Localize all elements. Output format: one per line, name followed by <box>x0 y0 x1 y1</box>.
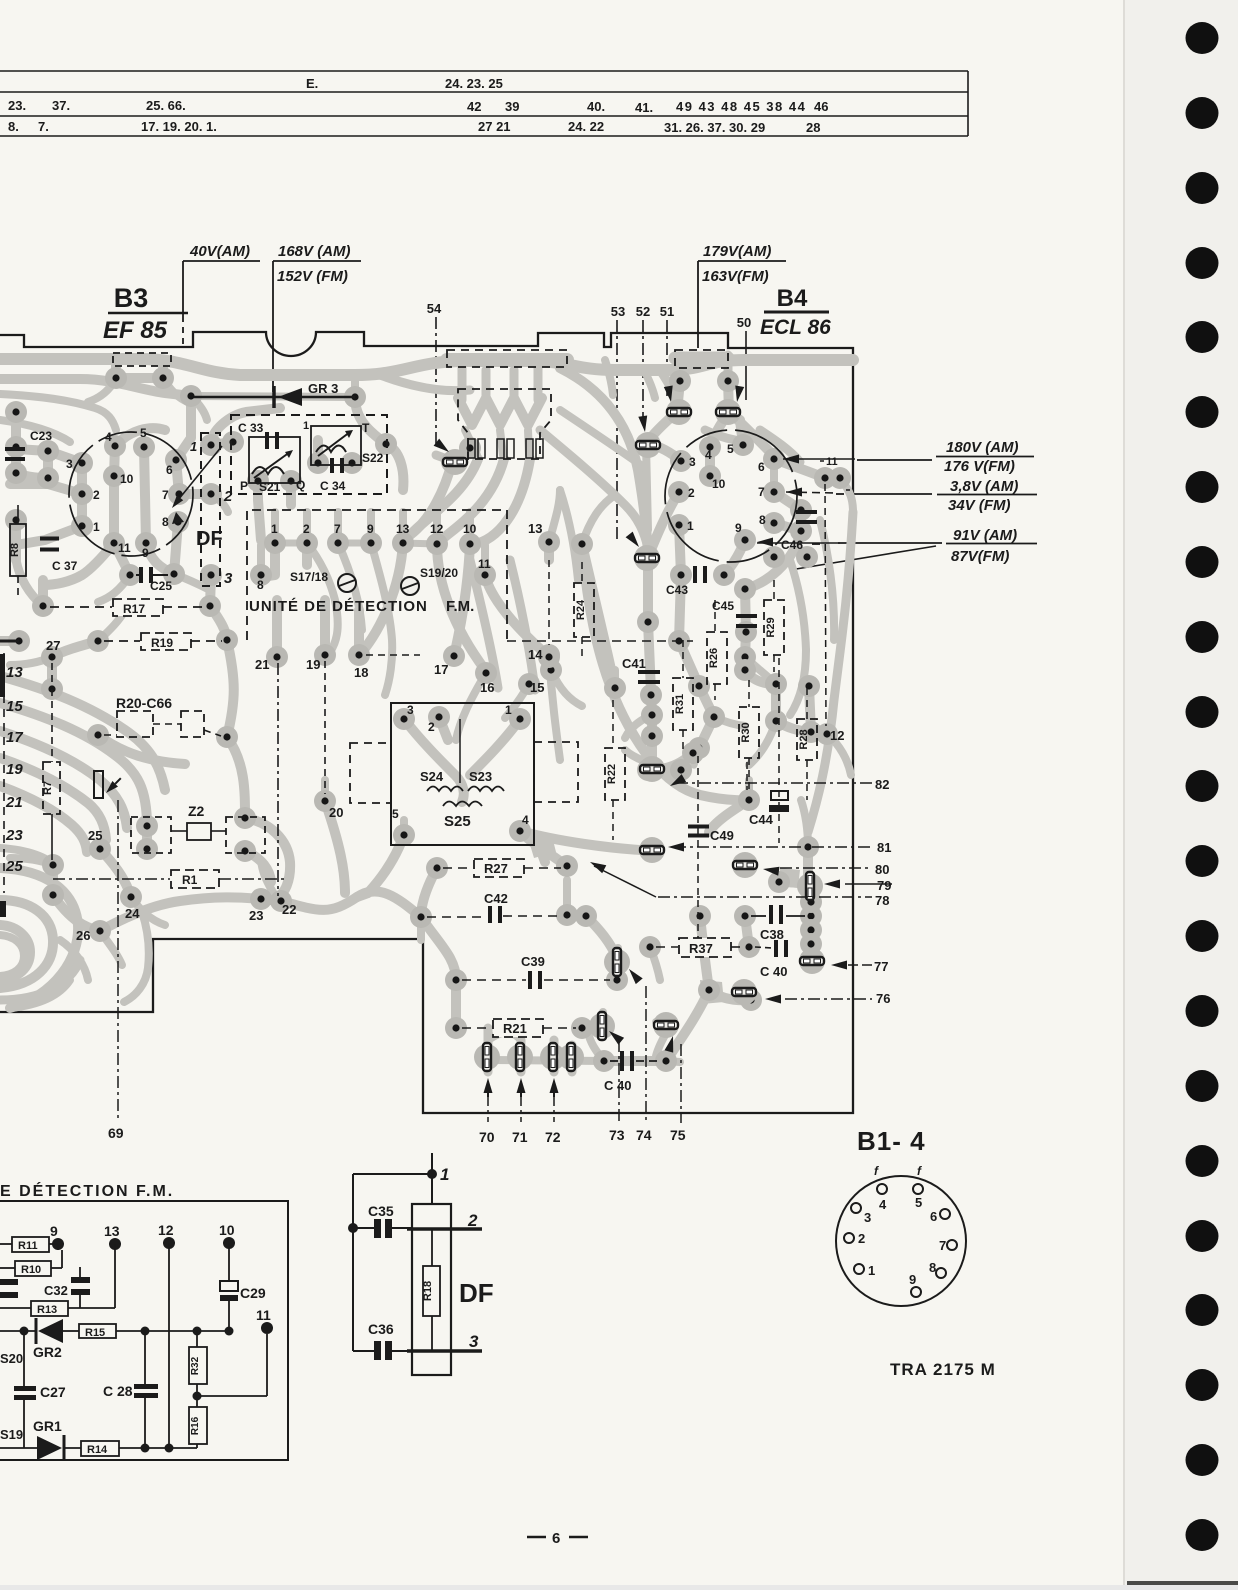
pad <box>393 708 415 730</box>
pad <box>200 564 222 586</box>
callout 51 <box>666 320 668 396</box>
wire <box>456 673 486 740</box>
pad <box>655 1050 677 1072</box>
capacitor C33 <box>265 432 279 449</box>
svg-text:71: 71 <box>512 1129 528 1145</box>
wire <box>0 359 853 375</box>
diode GR2 <box>0 1318 63 1344</box>
callout 13-14 <box>548 560 550 645</box>
pad <box>734 905 756 927</box>
resistor R1 <box>53 878 170 880</box>
svg-text:13: 13 <box>6 664 23 681</box>
svg-text:20: 20 <box>329 805 343 820</box>
svg-text:C41: C41 <box>622 656 646 671</box>
svg-text:C27: C27 <box>40 1384 66 1400</box>
coil S24 <box>427 787 463 792</box>
pad <box>816 723 838 745</box>
wire <box>368 835 404 893</box>
svg-text:53: 53 <box>611 304 625 319</box>
diode GR3 <box>194 396 355 399</box>
svg-text:R27: R27 <box>484 861 508 876</box>
wire <box>77 494 87 526</box>
svg-text:17: 17 <box>434 662 448 677</box>
wire <box>0 848 53 865</box>
terminal 10 <box>223 1237 235 1249</box>
pad <box>538 644 560 666</box>
wire <box>779 878 785 882</box>
wire <box>10 858 53 865</box>
svg-text:6: 6 <box>166 463 173 477</box>
wire 12 <box>168 1243 170 1448</box>
copper blob <box>700 980 724 1004</box>
svg-text:11: 11 <box>478 557 491 571</box>
svg-text:7: 7 <box>162 488 169 502</box>
wire <box>174 522 178 574</box>
strap 76 <box>731 979 757 1005</box>
wire <box>560 368 648 556</box>
wire <box>16 526 82 545</box>
strap 75 <box>653 1012 679 1038</box>
svg-text:2: 2 <box>467 1211 478 1230</box>
pad <box>199 595 221 617</box>
pad <box>180 385 202 407</box>
svg-text:11: 11 <box>826 456 838 468</box>
pad <box>800 919 822 941</box>
wire <box>114 543 130 575</box>
pad <box>234 840 256 862</box>
pad <box>688 675 710 697</box>
wire <box>724 540 745 575</box>
svg-text:C38: C38 <box>760 927 784 942</box>
wire <box>705 430 735 440</box>
wire <box>38 585 48 606</box>
svg-text:R14: R14 <box>87 1444 108 1456</box>
pad <box>280 470 302 492</box>
wire <box>693 748 699 753</box>
wire <box>77 463 87 494</box>
pad <box>718 401 740 423</box>
svg-text:23: 23 <box>5 827 23 844</box>
svg-text:EF 85: EF 85 <box>103 317 168 344</box>
diode GR1 <box>0 1435 64 1461</box>
svg-text:3,8V (AM): 3,8V (AM) <box>950 478 1018 495</box>
svg-text:19: 19 <box>6 761 23 778</box>
pad <box>765 710 787 732</box>
svg-text:13: 13 <box>528 521 542 536</box>
pad <box>798 675 820 697</box>
tube socket B3 <box>69 432 193 556</box>
pad <box>426 533 448 555</box>
pad <box>428 706 450 728</box>
pad <box>763 448 785 470</box>
wire <box>281 891 421 917</box>
pad <box>327 532 349 554</box>
copper blob <box>528 836 556 858</box>
svg-text:25: 25 <box>5 858 23 875</box>
svg-text:180V (AM): 180V (AM) <box>946 439 1019 456</box>
callout 69 <box>117 800 119 1121</box>
wire <box>451 980 461 1028</box>
wire <box>549 657 560 760</box>
B1-4 pin 7 <box>947 1240 957 1250</box>
B1-4 pin 1 <box>854 1264 864 1274</box>
svg-text:77: 77 <box>874 959 888 974</box>
wire <box>582 1027 598 1028</box>
svg-text:5: 5 <box>915 1195 922 1210</box>
arrow 81 <box>668 843 684 852</box>
capacitor C66 box <box>181 711 204 737</box>
wire <box>520 831 640 850</box>
svg-text:10: 10 <box>712 477 726 491</box>
wire <box>648 622 652 736</box>
wire <box>144 447 146 543</box>
svg-text:34V (FM): 34V (FM) <box>948 497 1011 514</box>
svg-text:8.: 8. <box>8 119 19 134</box>
svg-text:ECL 86: ECL 86 <box>760 316 831 339</box>
pad <box>314 790 336 812</box>
svg-text:15: 15 <box>530 680 544 695</box>
svg-text:S21: S21 <box>259 480 281 494</box>
wire <box>648 492 679 557</box>
svg-text:15: 15 <box>6 698 23 715</box>
svg-text:39: 39 <box>505 99 519 114</box>
pad <box>740 989 762 1011</box>
pad <box>163 563 185 585</box>
strap 74 <box>604 948 630 976</box>
svg-text:75: 75 <box>670 1127 686 1143</box>
wire <box>179 489 211 499</box>
pad <box>639 936 661 958</box>
resistor R14 <box>81 1441 119 1456</box>
terminal 13 <box>109 1238 121 1250</box>
wire stub <box>0 640 19 643</box>
resistor R10 <box>15 1261 51 1276</box>
wire <box>500 430 503 455</box>
wire <box>47 657 57 689</box>
wire <box>351 377 359 397</box>
B1-4 pin 4 <box>877 1184 887 1194</box>
pad <box>637 759 659 781</box>
svg-text:R18: R18 <box>422 1281 434 1301</box>
svg-text:14: 14 <box>528 647 543 662</box>
arrow <box>172 495 183 508</box>
svg-text:DF: DF <box>459 1278 494 1308</box>
wire <box>227 640 234 737</box>
pad <box>606 969 628 991</box>
pad <box>768 871 790 893</box>
wire <box>577 544 587 562</box>
capacitor C31 <box>0 1279 18 1298</box>
pad <box>270 890 292 912</box>
wire <box>677 381 680 412</box>
pad <box>167 511 189 533</box>
wire <box>436 455 455 462</box>
svg-text:C43: C43 <box>666 583 688 597</box>
wire <box>776 684 811 732</box>
wire <box>447 353 567 367</box>
pad <box>296 532 318 554</box>
wire <box>0 394 116 430</box>
resistor R37 <box>656 946 678 948</box>
resistor R19 <box>104 640 140 642</box>
wire <box>796 510 806 531</box>
terminal 9 <box>52 1238 64 1250</box>
svg-text:176 V(FM): 176 V(FM) <box>944 458 1015 475</box>
svg-text:3: 3 <box>469 1332 479 1351</box>
wire <box>482 370 491 400</box>
svg-text:S25: S25 <box>444 813 471 830</box>
svg-text:87V(FM): 87V(FM) <box>951 548 1009 565</box>
svg-text:T: T <box>362 421 370 435</box>
wire <box>124 912 149 1002</box>
capacitor C35 <box>374 1219 392 1238</box>
wire <box>560 410 645 468</box>
wire <box>510 370 519 400</box>
pad <box>314 644 336 666</box>
wire <box>0 676 165 790</box>
B1-4 pin 8 <box>936 1268 946 1278</box>
svg-text:R15: R15 <box>85 1327 105 1339</box>
pad <box>250 564 272 586</box>
pad <box>5 509 27 531</box>
resistor R17 <box>50 606 112 608</box>
arrow R7 <box>106 778 121 793</box>
svg-text:R24: R24 <box>575 599 587 620</box>
svg-text:74: 74 <box>636 1127 652 1143</box>
svg-text:S17/18: S17/18 <box>290 570 328 584</box>
wire <box>98 575 130 602</box>
pad <box>136 838 158 860</box>
wire <box>321 780 329 801</box>
strap 54 <box>442 449 468 475</box>
wire <box>746 531 801 589</box>
svg-text:R19: R19 <box>151 636 173 650</box>
arrow 71 <box>517 1078 526 1097</box>
pad <box>375 433 397 455</box>
svg-text:11: 11 <box>256 1307 271 1323</box>
Z2 pad box L <box>131 817 171 853</box>
capacitor C23 <box>5 447 25 461</box>
svg-text:26: 26 <box>76 928 90 943</box>
wire <box>679 641 699 686</box>
pad <box>763 546 785 568</box>
arrow pin7 <box>786 488 802 497</box>
svg-text:51: 51 <box>660 304 674 319</box>
svg-text:R10: R10 <box>21 1264 41 1276</box>
wire <box>625 750 656 766</box>
svg-text:50: 50 <box>737 315 751 330</box>
svg-text:8: 8 <box>257 578 264 592</box>
svg-text:R21: R21 <box>503 1021 527 1036</box>
wire <box>563 880 571 915</box>
strap 72a <box>540 1043 566 1071</box>
svg-text:DF: DF <box>196 528 223 550</box>
svg-text:80: 80 <box>875 862 889 877</box>
wire <box>646 445 648 530</box>
svg-text:3: 3 <box>407 703 414 717</box>
svg-text:4: 4 <box>705 448 712 462</box>
wire <box>745 589 746 657</box>
wire <box>0 935 24 976</box>
capacitor C40 <box>620 1051 634 1071</box>
wire <box>452 448 470 462</box>
wire <box>142 826 152 849</box>
svg-text:10: 10 <box>120 472 134 486</box>
wire <box>357 893 368 897</box>
svg-text:C35: C35 <box>368 1203 394 1219</box>
strap 77 <box>799 948 825 974</box>
svg-text:R26: R26 <box>708 648 720 668</box>
wire <box>43 451 53 478</box>
pad <box>344 386 366 408</box>
pad <box>732 434 754 456</box>
trimmer S21 symbol <box>252 450 293 478</box>
pad <box>266 646 288 668</box>
wire <box>258 481 261 540</box>
wire <box>0 925 30 980</box>
wire <box>656 1030 668 1056</box>
arrow pin6 <box>783 455 799 464</box>
svg-text:24: 24 <box>125 906 140 921</box>
svg-text:R29: R29 <box>765 617 777 637</box>
pad <box>410 906 432 928</box>
svg-text:40.: 40. <box>587 99 605 114</box>
svg-text:168V (AM): 168V (AM) <box>278 243 351 260</box>
pad <box>360 532 382 554</box>
svg-text:25. 66.: 25. 66. <box>146 98 186 113</box>
measure line 179V <box>697 261 699 348</box>
terminal 11 <box>261 1322 273 1334</box>
wire <box>10 657 52 665</box>
wire <box>191 396 207 420</box>
pad <box>698 979 720 1001</box>
wire <box>0 731 127 828</box>
left edge callout nodes <box>3 653 5 893</box>
wire <box>0 868 78 1008</box>
wire <box>88 378 116 402</box>
svg-text:R20-C66: R20-C66 <box>116 695 172 711</box>
wire <box>10 484 82 494</box>
pad <box>738 789 760 811</box>
pad <box>699 465 721 487</box>
wire <box>302 543 312 565</box>
measure line 40V <box>182 261 184 322</box>
wire <box>100 931 122 965</box>
wire <box>176 460 179 494</box>
wire <box>354 610 364 655</box>
pad <box>682 742 704 764</box>
wire <box>540 430 648 548</box>
wire <box>0 420 70 442</box>
svg-text:2: 2 <box>303 522 310 536</box>
pad <box>200 434 222 456</box>
pad <box>42 884 64 906</box>
svg-text:23: 23 <box>249 908 263 923</box>
wire <box>709 990 751 1000</box>
pad <box>474 564 496 586</box>
wire <box>582 1024 600 1032</box>
wire <box>666 1061 680 1062</box>
svg-text:Q: Q <box>296 478 305 492</box>
wire <box>540 848 545 862</box>
wire <box>43 543 114 585</box>
pad <box>459 437 481 459</box>
pin slot <box>478 439 485 458</box>
callout 50 <box>745 331 747 400</box>
resistor R8 <box>10 524 26 576</box>
svg-text:18: 18 <box>354 665 368 680</box>
pad <box>538 646 560 668</box>
wire <box>16 560 43 606</box>
pin slot <box>507 439 514 458</box>
pad <box>135 532 157 554</box>
callout line 3.8V <box>846 493 932 495</box>
pad <box>670 564 692 586</box>
pad <box>593 1050 615 1072</box>
svg-text:C 33: C 33 <box>238 421 264 435</box>
svg-text:1: 1 <box>271 522 278 536</box>
capacitor C44 <box>769 791 789 812</box>
svg-text:70: 70 <box>479 1129 495 1145</box>
wire <box>745 916 749 947</box>
arrow 75 <box>665 1036 674 1053</box>
wire <box>417 917 425 940</box>
pad <box>765 673 787 695</box>
wire <box>809 686 811 732</box>
arrow 53 <box>626 532 639 547</box>
wire <box>774 492 801 510</box>
wire <box>404 719 464 802</box>
pad <box>734 646 756 668</box>
svg-text:R37: R37 <box>689 941 713 956</box>
crystal Z2 <box>187 823 211 840</box>
pad <box>713 564 735 586</box>
pad <box>641 725 663 747</box>
wire <box>488 1060 604 1061</box>
svg-text:2: 2 <box>858 1231 865 1246</box>
svg-text:27: 27 <box>46 638 60 653</box>
wire <box>115 428 165 446</box>
dashed link unite-R26 <box>507 640 693 642</box>
wire <box>801 800 808 847</box>
pad <box>5 462 27 484</box>
wire <box>656 1022 667 1026</box>
wire <box>211 408 280 445</box>
pad <box>669 370 691 392</box>
wire <box>0 636 19 646</box>
svg-text:R16: R16 <box>190 1416 201 1435</box>
pad <box>538 531 560 553</box>
svg-text:22: 22 <box>282 902 296 917</box>
wire <box>567 915 586 916</box>
trimmer S22 symbol <box>316 430 353 456</box>
wire <box>517 1040 526 1072</box>
wire <box>355 397 386 444</box>
pad <box>71 515 93 537</box>
svg-text:11: 11 <box>118 541 131 555</box>
svg-text:1: 1 <box>440 1165 449 1184</box>
pad <box>637 547 659 569</box>
pad <box>509 820 531 842</box>
pad <box>42 854 64 876</box>
svg-text:4: 4 <box>105 430 112 444</box>
pad <box>814 467 836 489</box>
wire <box>811 944 813 962</box>
pad <box>668 630 690 652</box>
svg-text:C 34: C 34 <box>320 479 346 493</box>
wire 13 <box>114 1244 116 1308</box>
svg-text:S19/20: S19/20 <box>420 566 458 580</box>
